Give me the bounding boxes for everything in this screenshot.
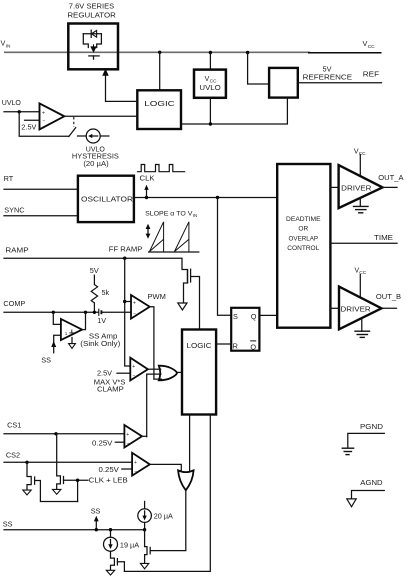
svg-text:OSCILLATOR: OSCILLATOR [81, 195, 134, 204]
ground agnd arrow under fet right [53, 489, 61, 494]
gate OR2 down [178, 415, 194, 491]
svg-text:FF RAMP: FF RAMP [109, 247, 143, 254]
regulator internal pass device [83, 30, 101, 59]
wire VIN rail [4, 51, 382, 54]
switch hysteresis [69, 128, 76, 137]
ground agnd arrow under SS amp [69, 338, 76, 349]
transistor Q-cs1 blanking fet right [57, 434, 88, 502]
svg-text:REGULATOR: REGULATOR [67, 11, 116, 20]
svg-text:−: − [127, 441, 130, 447]
svg-text:LOGIC: LOGIC [144, 99, 175, 108]
wire ramp vertical to comparators [125, 258, 131, 366]
pin TIME label and wire [330, 235, 397, 243]
node junction COMP to SS amp output [84, 311, 87, 314]
box OSCILLATOR [78, 176, 134, 222]
resistor R 5k [91, 275, 97, 312]
wire SS [4, 529, 145, 531]
pin VIN label [1, 38, 12, 49]
svg-text:OVERLAP: OVERLAP [289, 235, 319, 242]
wire deadtime to driver A [330, 186, 338, 188]
box deadtime or overlap control [277, 164, 330, 328]
svg-text:SYNC: SYNC [4, 206, 24, 215]
node junction CS1 to blanking fet [54, 432, 57, 435]
wire 0.25V stub cs2 [122, 468, 132, 470]
wire RT [4, 188, 78, 190]
svg-text:CONTROL: CONTROL [287, 245, 319, 252]
svg-text:−: − [134, 469, 137, 475]
ground pgnd under driver A [353, 198, 369, 213]
svg-text:1V: 1V [97, 316, 106, 325]
wire VIN to reference box [248, 53, 270, 85]
svg-text:UVLO: UVLO [199, 85, 221, 92]
box LOGIC2 [182, 330, 216, 415]
box VCC-UVLO [194, 53, 226, 125]
current source UVLO hysteresis 20uA [78, 129, 109, 143]
svg-text:20 µA: 20 µA [154, 511, 173, 520]
svg-text:−: − [133, 311, 136, 317]
svg-text:Q: Q [251, 312, 257, 321]
svg-text:IN: IN [6, 43, 11, 49]
svg-text:5V: 5V [90, 266, 99, 275]
wire LOGIC2 to latch R [216, 343, 231, 345]
svg-text:0.25V: 0.25V [99, 465, 120, 474]
node junction at PWM plus [123, 300, 126, 303]
svg-text:Q: Q [250, 342, 256, 351]
svg-text:0.25V: 0.25V [92, 439, 113, 448]
svg-text:19 µA: 19 µA [120, 540, 139, 549]
svg-text:SS: SS [41, 355, 51, 364]
wire PWM output down to OR1 [150, 307, 162, 379]
svg-text:REFERENCE: REFERENCE [303, 73, 353, 82]
node junction SS end [143, 528, 146, 531]
wire stub to PWM plus [125, 301, 131, 303]
node junction FF RAMP [123, 257, 126, 260]
pin VCC label [363, 39, 376, 50]
wire RAMP to discharge fet [4, 258, 188, 269]
wire VCC stub driver B [359, 275, 361, 298]
svg-text:OR: OR [298, 226, 308, 233]
node junction clk leb [76, 479, 79, 482]
ground agnd arrow under 19uA fet [106, 570, 114, 575]
wire clamp output to OR1 [148, 368, 161, 370]
wire LOGIC2 bottom to 19uA fet gate [124, 415, 210, 572]
wire arrow up to CLK [144, 185, 148, 198]
svg-text:R: R [233, 342, 238, 351]
node junction clock to latch [216, 196, 219, 199]
label SLOPE a TO VIN [145, 211, 197, 219]
label VCC driver B [355, 267, 367, 276]
svg-text:−: − [133, 374, 136, 380]
svg-text:RAMP: RAMP [5, 245, 28, 254]
pin PGND symbol [342, 424, 385, 454]
node junction on VIN to logic [158, 51, 161, 54]
latch SR [231, 308, 259, 352]
op-amp CS1 comparator [124, 425, 142, 448]
svg-text:CC: CC [210, 79, 217, 85]
pin REF label and wire [298, 70, 382, 83]
svg-text:HYSTERESIS: HYSTERESIS [72, 154, 119, 161]
wire UVLO comp output to LOGIC1 [64, 115, 137, 117]
wire reference box bottom to logic rail [181, 98, 287, 124]
wire CS2 output to OR2 and PWM node [150, 464, 182, 470]
label SS Amp (Sink Only) [80, 333, 120, 347]
ground pgnd under driver B [354, 318, 370, 337]
svg-text:AGND: AGND [360, 480, 382, 487]
waveform CLK pulses [137, 165, 185, 172]
op-amp PWM comparator [131, 295, 150, 319]
svg-text:DRIVER: DRIVER [341, 306, 371, 313]
op-amp CS2 comparator [132, 453, 150, 476]
svg-text:RT: RT [4, 174, 14, 183]
svg-text:1: 1 [65, 331, 68, 336]
current source 19uA [104, 530, 118, 552]
transistor Q-ramp discharge mosfet [184, 269, 200, 329]
svg-text:−: − [43, 119, 46, 125]
ground agnd arrow under ramp fet [178, 303, 187, 310]
svg-text:TIME: TIME [374, 235, 393, 242]
wire 2.5V stub to clamp minus [117, 372, 130, 374]
svg-text:(20 µA): (20 µA) [83, 161, 108, 168]
transistor Q-cs2 blanking fet left [27, 462, 78, 501]
wire oscillator output to deadtime [134, 197, 277, 199]
wire SYNC [4, 215, 78, 217]
wire CS1 output up to OR1 [142, 435, 147, 437]
node junction CS2 to fet [25, 461, 28, 464]
node junction UVLO [18, 110, 21, 113]
ground agnd arrow under ss discharge fet [140, 563, 148, 568]
wire OR1 output to LOGIC2 [177, 371, 182, 373]
node junction SS 19uA [109, 528, 112, 531]
svg-text:DEADTIME: DEADTIME [286, 216, 321, 223]
node junction on VIN to reference [246, 51, 249, 54]
wire UVLO down to hysteresis switch [19, 112, 69, 137]
regulator U-REG 7.6V series [67, 2, 118, 70]
node junction CLK [145, 196, 148, 199]
ground agnd arrow under fet left [23, 490, 31, 495]
wire OR2 output to SS discharge fet [150, 490, 185, 550]
node junction COMP to SS amp input [52, 311, 55, 314]
svg-text:PGND: PGND [360, 424, 383, 431]
svg-text:UVLO: UVLO [86, 146, 106, 153]
svg-text:REF: REF [363, 70, 380, 79]
wire CS1 [4, 433, 124, 435]
svg-text:(Sink Only): (Sink Only) [80, 341, 120, 348]
svg-text:CLK: CLK [140, 173, 155, 182]
wire CLK down to latch S [218, 198, 232, 316]
wire OR1 middle input from CS1 [147, 374, 161, 437]
svg-text:+: + [42, 111, 45, 117]
transistor Q-ss discharge mosfet [145, 530, 151, 564]
box 5V reference [269, 64, 352, 97]
node junction on VIN to Vcc UVLO [209, 51, 212, 54]
label SS arrow up [91, 507, 101, 530]
node junction COMP to 5k [93, 311, 96, 314]
svg-text:IN: IN [193, 213, 198, 218]
svg-text:MAX V*S: MAX V*S [94, 379, 126, 386]
wire COMP [4, 311, 99, 313]
wire dashed switch control [73, 117, 75, 127]
box LOGIC1 [137, 52, 181, 129]
svg-text:COMP: COMP [3, 299, 25, 308]
svg-text:+: + [126, 432, 129, 438]
svg-text:5k: 5k [102, 288, 110, 297]
wire UVLO input [4, 111, 40, 113]
svg-text:SS Amp: SS Amp [89, 333, 118, 340]
svg-text:OUT_A: OUT_A [378, 175, 404, 182]
svg-text:7.6V SERIES: 7.6V SERIES [69, 2, 115, 11]
wire 2.5V stub [25, 119, 40, 121]
svg-text:2.5V: 2.5V [97, 368, 112, 377]
svg-text:+: + [133, 300, 136, 306]
wire CS2 [4, 461, 132, 463]
wire 0.25V stub cs1 [115, 441, 124, 443]
wire VCC stub driver A [359, 155, 361, 177]
svg-text:OUT_B: OUT_B [376, 294, 402, 301]
label 2.5V MAX V*S CLAMP [94, 368, 126, 393]
waveform sawtooth ramps [148, 222, 199, 252]
svg-text:+: + [132, 364, 135, 370]
label UVLO HYSTERESIS (20 uA) [72, 146, 119, 168]
svg-text:DRIVER: DRIVER [341, 185, 371, 192]
current source 20uA [138, 501, 152, 529]
svg-text:CLAMP: CLAMP [97, 386, 124, 393]
svg-text:PWM: PWM [148, 292, 166, 301]
svg-text:SLOPE α TO V: SLOPE α TO V [145, 211, 193, 218]
svg-text:CLK + LEB: CLK + LEB [89, 476, 128, 485]
pin OUT_B label and wire [376, 294, 402, 308]
driver A [339, 165, 383, 208]
svg-text:UVLO: UVLO [2, 100, 22, 107]
wire deadtime to driver B [330, 307, 339, 309]
wire latch Q to deadtime [259, 314, 277, 316]
svg-text:SS: SS [91, 507, 101, 516]
svg-text:CS2: CS2 [6, 451, 20, 460]
gate OR1 [159, 366, 177, 381]
driver B [339, 287, 382, 330]
svg-text:CC: CC [368, 44, 375, 50]
svg-text:+: + [134, 460, 137, 466]
pin AGND symbol [347, 480, 385, 507]
svg-text:LOGIC: LOGIC [187, 341, 212, 350]
label VCC driver A [354, 148, 366, 157]
wire LOGIC1 to regulator with arrow [103, 69, 138, 101]
battery 1V offset [99, 309, 131, 316]
svg-text:S: S [233, 312, 238, 321]
pin OUT_A label and wire [378, 175, 404, 188]
node junction SS arrow [95, 528, 98, 531]
arrow double vertical slope [146, 224, 151, 239]
op-amp UVLO comparator [40, 103, 65, 129]
transistor Q-ss pulldown 19uA [111, 551, 125, 571]
svg-text:2.5V: 2.5V [21, 123, 36, 132]
svg-text:CS1: CS1 [7, 421, 21, 430]
op-amp clamp comparator [130, 358, 148, 381]
svg-text:SS: SS [3, 520, 13, 529]
node junction Vcc UVLO to rail [209, 122, 212, 125]
op-amp SS amp [41, 312, 85, 364]
